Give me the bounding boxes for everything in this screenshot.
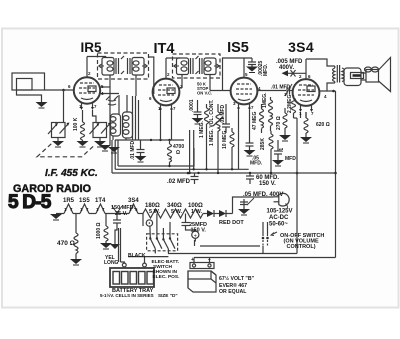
svg-text:25 V.: 25 V. bbox=[115, 211, 128, 217]
svg-text:50-60~: 50-60~ bbox=[269, 222, 288, 228]
tube 1R5 bbox=[74, 57, 100, 111]
power resistor 340 ohm 5W bbox=[163, 209, 183, 218]
power resistor 100 ohm 1W bbox=[183, 209, 203, 218]
svg-text:1R5: 1R5 bbox=[63, 198, 75, 204]
svg-text:IR5: IR5 bbox=[80, 40, 102, 55]
resistor 1 MEG b bbox=[269, 97, 273, 131]
capacitor .01 MFD (1S5 plate coupling) bbox=[258, 84, 293, 96]
svg-text:I.F. 455 KC.: I.F. 455 KC. bbox=[45, 168, 98, 179]
capacitor .0001 MFD bbox=[192, 100, 204, 124]
electrolytic 25MFD 150V bbox=[182, 214, 199, 242]
B battery bbox=[188, 263, 216, 293]
svg-text:+: + bbox=[191, 257, 194, 263]
loop antenna bbox=[12, 73, 45, 90]
svg-text:5 W.: 5 W. bbox=[149, 209, 160, 215]
wire 1R5 pin7 to osc section bbox=[93, 110, 97, 123]
resistor 1000 ohm bbox=[100, 214, 112, 250]
svg-text:MFD: MFD bbox=[285, 156, 296, 162]
tuning capacitor C1b (oscillator) bbox=[90, 123, 112, 142]
tuning capacitor C1a bbox=[48, 123, 70, 142]
svg-text:.01 MFD: .01 MFD bbox=[130, 140, 136, 160]
svg-text:1S5: 1S5 bbox=[79, 198, 90, 204]
wire IFT1 secondary top to 1T4 grid bbox=[149, 57, 154, 94]
wire IFT2 secondary to 1S5 grid bbox=[210, 90, 231, 92]
svg-text:BLACK: BLACK bbox=[128, 253, 146, 259]
resistor 620 ohm bbox=[300, 112, 312, 143]
svg-text:5 W.: 5 W. bbox=[171, 209, 182, 215]
potentiometer 1 MEG VOL CONT bbox=[213, 104, 224, 173]
svg-text:+: + bbox=[194, 233, 197, 239]
tube 1T4 bbox=[153, 58, 180, 112]
misc bottom wires bbox=[154, 249, 156, 254]
svg-text:1T4: 1T4 bbox=[95, 198, 106, 204]
IF transformer T1 dashed box bbox=[98, 53, 149, 79]
capacitor .02 MFD bbox=[187, 172, 199, 184]
IF transformer T2 dashed box bbox=[173, 54, 221, 78]
svg-text:285K: 285K bbox=[260, 138, 266, 150]
ground C1b bbox=[94, 141, 106, 147]
on-off switch contacts bbox=[262, 229, 277, 246]
wire 3S4 pin5 down bbox=[300, 112, 302, 118]
junction dots bbox=[188, 172, 190, 174]
battery tray bbox=[110, 263, 154, 287]
svg-text:.01 MFD.: .01 MFD. bbox=[271, 85, 292, 91]
capacitor .05 MFD bbox=[244, 133, 256, 156]
svg-text:10 MEG.: 10 MEG. bbox=[222, 129, 228, 149]
grounds mid-left bbox=[99, 145, 111, 151]
svg-text:.0001: .0001 bbox=[189, 99, 195, 112]
elec/batt switch box bbox=[146, 214, 177, 251]
svg-text:470 Ω: 470 Ω bbox=[57, 240, 75, 247]
ground 270 bbox=[279, 135, 291, 141]
electrolytic 150MFD 25V bbox=[110, 206, 122, 249]
wire antenna to 1R5 grid bbox=[45, 89, 74, 91]
right B- loop wires bbox=[335, 91, 337, 258]
svg-text:MFD.: MFD. bbox=[250, 161, 263, 167]
wire 1T4 pin7 down bbox=[171, 111, 173, 140]
svg-text:−: − bbox=[208, 257, 211, 263]
resistor 47 MEG bbox=[260, 104, 264, 133]
output transformer T4 bbox=[333, 65, 345, 83]
resistor 470 ohm bbox=[70, 214, 82, 266]
svg-text:67½ VOLT "B": 67½ VOLT "B" bbox=[219, 275, 255, 282]
ground C1a bbox=[52, 141, 64, 147]
resistor 100K bbox=[81, 110, 85, 141]
svg-text:1 MEG.: 1 MEG. bbox=[199, 120, 205, 138]
wire 1R5 pin4 right bbox=[100, 93, 119, 95]
tube 3S4 bbox=[293, 59, 320, 118]
ground antenna bbox=[36, 102, 48, 108]
svg-text:620 Ω: 620 Ω bbox=[316, 122, 330, 128]
svg-text:RED DOT: RED DOT bbox=[219, 220, 244, 226]
power plug bbox=[274, 193, 290, 208]
resistor 10 MEG bbox=[230, 128, 234, 169]
svg-text:1MEG.: 1MEG. bbox=[262, 92, 268, 108]
svg-text:SIZE "D": SIZE "D" bbox=[158, 293, 178, 298]
capacitor .005 MFD 400V with arrow bbox=[282, 70, 307, 77]
bus wires mid bbox=[115, 139, 184, 141]
svg-text:.01 MFD: .01 MFD bbox=[220, 104, 226, 124]
svg-text:EVER® 467: EVER® 467 bbox=[219, 282, 247, 289]
svg-text:IS5: IS5 bbox=[227, 40, 249, 56]
svg-text:5-1½V. CELLS IN SERIES: 5-1½V. CELLS IN SERIES bbox=[100, 292, 154, 298]
capacitor .05 MFD 400V bottom bbox=[238, 197, 254, 215]
svg-text:OR EQUAL: OR EQUAL bbox=[219, 289, 247, 295]
svg-text:IT4: IT4 bbox=[154, 41, 175, 57]
svg-text:ON V.C.: ON V.C. bbox=[197, 91, 212, 96]
svg-text:Ω: Ω bbox=[176, 150, 180, 156]
svg-text:1 W.: 1 W. bbox=[191, 209, 202, 215]
capacitor 1 MFD bbox=[272, 140, 284, 166]
wires to tray bbox=[118, 228, 120, 262]
svg-text:5 D-5: 5 D-5 bbox=[8, 192, 52, 213]
long vertical wires center-left bbox=[112, 136, 114, 140]
svg-text:1000 Ω: 1000 Ω bbox=[96, 222, 102, 239]
svg-text:100 K: 100 K bbox=[73, 117, 79, 131]
svg-text:270 Ω: 270 Ω bbox=[276, 116, 282, 130]
resistor 4700 ohm bbox=[168, 140, 172, 166]
wires 3S4 plate to T4 bbox=[306, 59, 335, 66]
electrolytic 60 MFD 150V bbox=[246, 173, 254, 184]
svg-text:CONTROL): CONTROL) bbox=[287, 244, 316, 250]
svg-text:AC-DC: AC-DC bbox=[269, 215, 289, 221]
ground 100K bbox=[77, 141, 89, 147]
svg-text:400V.: 400V. bbox=[279, 65, 294, 71]
svg-text:MFD.: MFD. bbox=[263, 63, 269, 76]
wire to .05 cap bbox=[233, 197, 245, 214]
speaker bbox=[344, 58, 391, 92]
resistor 285K bbox=[269, 131, 273, 173]
wire 1S5 pin7 down bbox=[249, 110, 251, 133]
power resistor 180 ohm 5W bbox=[143, 209, 163, 218]
svg-text:1 MEG. VOL. CONT.: 1 MEG. VOL. CONT. bbox=[209, 99, 215, 146]
resistor 270 ohm bbox=[283, 108, 287, 135]
wire down to tuning cap bbox=[63, 90, 65, 123]
capacitor .01 MFD (left, in box) bbox=[135, 140, 147, 162]
wire 1S5 pin3 down bbox=[238, 110, 240, 169]
tube 1S5 bbox=[231, 58, 258, 111]
wires T1 bbox=[87, 56, 106, 58]
rectifier diodes bbox=[203, 210, 233, 217]
wire 1T4 pin1 down bbox=[160, 111, 162, 140]
capacitor .01 MFD mid bbox=[222, 104, 230, 133]
svg-text:ELEC. POS.: ELEC. POS. bbox=[153, 274, 180, 280]
wires T2 bbox=[166, 57, 180, 59]
svg-text:47 MEG: 47 MEG bbox=[252, 112, 258, 130]
svg-text:105-125V: 105-125V bbox=[267, 209, 293, 215]
resistor 1 MEG bbox=[205, 104, 209, 169]
svg-text:3S4: 3S4 bbox=[128, 198, 139, 204]
filament string bbox=[56, 204, 143, 214]
svg-text:150 V.: 150 V. bbox=[259, 181, 276, 187]
svg-text:150 V.: 150 V. bbox=[191, 228, 207, 234]
svg-text:.1: .1 bbox=[279, 148, 285, 152]
resistor 2.2MEG bbox=[292, 95, 298, 118]
svg-text:.05 MFD. 400V: .05 MFD. 400V bbox=[243, 192, 283, 198]
svg-text:2.2MEG: 2.2MEG bbox=[287, 95, 293, 113]
capacitor .00025 MFD top bbox=[246, 58, 258, 73]
oscillator coil T3 bbox=[106, 96, 133, 138]
svg-text:LONG: LONG bbox=[104, 260, 119, 266]
wire 1R5 pin5 right bbox=[100, 86, 110, 88]
svg-text:.02 MFD: .02 MFD bbox=[167, 179, 191, 185]
gang dashed line bbox=[37, 144, 94, 157]
svg-text:3S4: 3S4 bbox=[288, 39, 314, 55]
